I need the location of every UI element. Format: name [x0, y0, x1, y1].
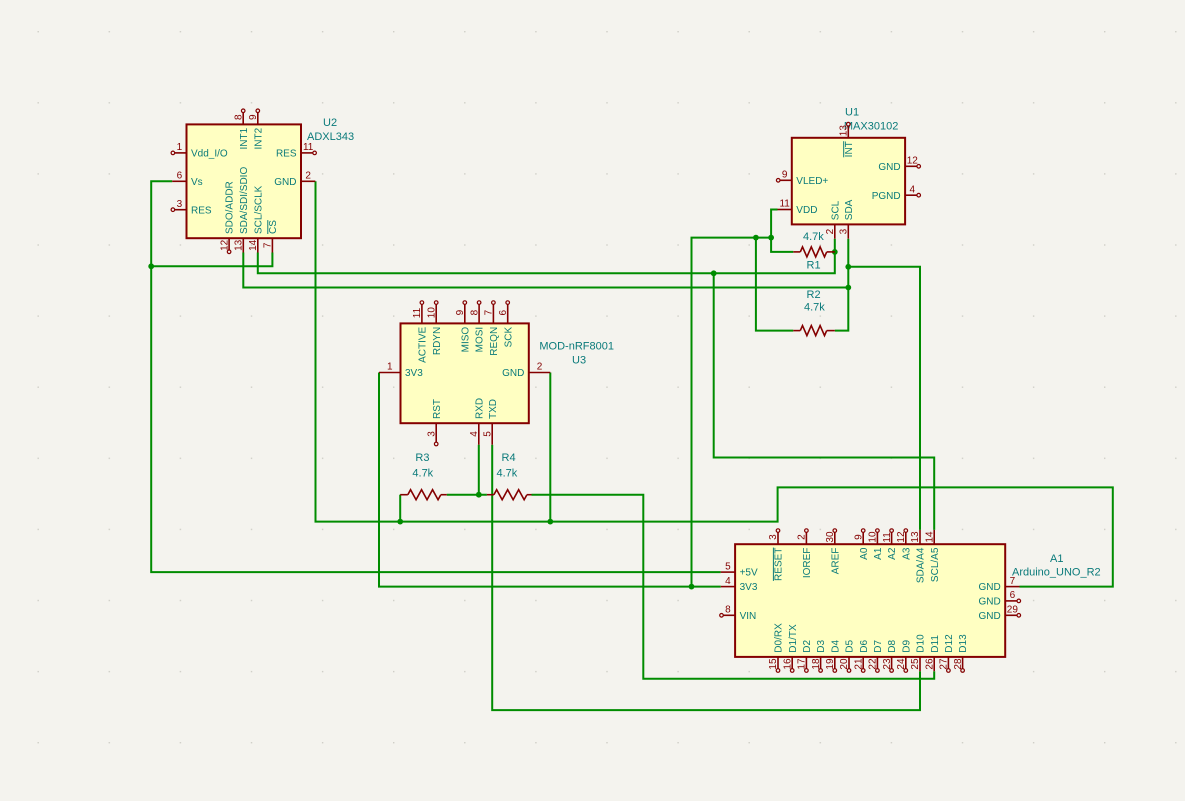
svg-text:R3: R3 [415, 452, 429, 464]
svg-text:SCK: SCK [503, 326, 514, 347]
wire R2 left feed [756, 238, 793, 331]
svg-text:VIN: VIN [740, 611, 757, 622]
U2 pin 14 SCL/SCLK [257, 238, 259, 252]
A1 pin 9 A0 [862, 532, 864, 544]
wire R1 left feed [771, 238, 793, 252]
svg-text:16: 16 [782, 658, 793, 670]
resistor R1 body [793, 251, 800, 253]
svg-text:4.7k: 4.7k [803, 231, 824, 243]
A1 pin 20 D5 [848, 657, 850, 669]
A1 pin 23 D8 [891, 657, 893, 669]
U3 pin 8 MOSI [478, 304, 480, 323]
resistor R3 body [400, 494, 408, 496]
wire 3V3: U3 pin 1 down and right to Arduino 3V3 pin 4 [379, 373, 721, 587]
svg-text:INT2: INT2 [253, 127, 264, 149]
svg-text:24: 24 [896, 658, 907, 670]
junction SDA/A4 [845, 264, 851, 270]
svg-text:SDA: SDA [844, 199, 855, 220]
U2 pin 3 RES [175, 209, 187, 211]
svg-text:D1/TX: D1/TX [788, 624, 799, 653]
svg-text:27: 27 [939, 658, 950, 670]
svg-text:D0/RX: D0/RX [774, 623, 785, 653]
svg-text:9: 9 [853, 534, 864, 540]
U3 pin 2 GND [529, 372, 551, 374]
svg-text:28: 28 [953, 658, 964, 670]
svg-text:U3: U3 [572, 355, 586, 367]
svg-text:Vdd_I/O: Vdd_I/O [191, 149, 228, 160]
junction +5V/CS [148, 263, 154, 269]
svg-text:MOD-nRF8001: MOD-nRF8001 [539, 340, 614, 352]
svg-text:4: 4 [469, 431, 480, 437]
svg-text:6: 6 [1010, 590, 1016, 601]
svg-text:MISO: MISO [460, 327, 471, 353]
svg-text:D13: D13 [958, 634, 969, 653]
svg-text:10: 10 [426, 307, 437, 319]
U1 pin 12 GND [905, 165, 917, 167]
svg-text:A2: A2 [887, 547, 898, 560]
svg-text:7: 7 [263, 242, 274, 248]
svg-text:3: 3 [839, 228, 850, 234]
svg-text:SDA/A4: SDA/A4 [916, 547, 927, 583]
svg-text:9: 9 [248, 114, 259, 120]
A1 pin 25 D10 [919, 657, 921, 671]
junction GND/R3 [397, 519, 403, 525]
svg-text:19: 19 [825, 658, 836, 670]
svg-text:13: 13 [910, 531, 921, 543]
A1 pin 7 GND [1005, 586, 1019, 588]
A1 pin 24 D9 [905, 657, 907, 669]
svg-text:8: 8 [725, 605, 731, 616]
svg-text:12: 12 [896, 531, 907, 543]
svg-text:7: 7 [1010, 576, 1016, 587]
svg-text:VLED+: VLED+ [796, 176, 828, 187]
svg-text:5: 5 [482, 431, 493, 437]
svg-text:2: 2 [537, 362, 543, 373]
U3 pin 4 RXD [478, 423, 480, 445]
svg-text:3: 3 [426, 431, 437, 437]
wire +5V net: U2 Vs pin 6 down to Arduino +5V pin 5 [151, 181, 721, 572]
svg-text:GND: GND [878, 162, 900, 173]
A1 pin 28 D13 [962, 657, 964, 669]
svg-text:ADXL343: ADXL343 [307, 131, 354, 143]
U2 pin 6 Vs [172, 180, 186, 182]
junction SDA/U2 [845, 285, 851, 291]
svg-text:GND: GND [978, 611, 1000, 622]
svg-text:D5: D5 [845, 639, 856, 652]
svg-text:GND: GND [978, 597, 1000, 608]
svg-text:D4: D4 [830, 639, 841, 652]
svg-text:3: 3 [177, 199, 183, 210]
svg-text:11: 11 [303, 142, 314, 153]
svg-text:25: 25 [910, 658, 921, 670]
svg-text:D6: D6 [859, 639, 870, 652]
U1 pin 4 PGND [905, 194, 917, 196]
A1 pin 3 RESET [777, 532, 779, 544]
svg-text:14: 14 [924, 531, 935, 543]
U2 pin 11 RES [301, 152, 313, 154]
wire SDA vertical: U1 SDA pin 3 down to R2 right [835, 239, 849, 331]
svg-text:REQN: REQN [489, 327, 500, 356]
svg-text:IOREF: IOREF [802, 548, 813, 579]
junction 3V3/R2 [753, 235, 759, 241]
wire SDA branch to Arduino SDA/A4 pin 13 [848, 267, 920, 530]
wire U3 GND pin 2 down to GND rail [549, 373, 551, 522]
A1 pin 10 A1 [876, 532, 878, 544]
svg-text:12: 12 [219, 239, 230, 251]
svg-text:9: 9 [782, 170, 788, 181]
A1 pin 2 IOREF [805, 532, 807, 544]
U3 pin 9 MISO [464, 304, 466, 323]
junction RXD/R3/R4 [476, 492, 482, 498]
svg-text:26: 26 [924, 658, 935, 670]
svg-text:2: 2 [797, 534, 808, 540]
wire CS: U2 pin 7 to +5V vertical [151, 253, 272, 267]
svg-text:SCL/A5: SCL/A5 [930, 547, 941, 582]
svg-text:4.7k: 4.7k [412, 467, 433, 479]
svg-text:SDO/ADDR: SDO/ADDR [225, 181, 236, 234]
svg-text:D2: D2 [802, 639, 813, 652]
wire R3 left down to GND rail [399, 495, 401, 522]
A1 pin 13 SDA/A4 [919, 530, 921, 544]
svg-text:MOSI: MOSI [475, 327, 486, 353]
svg-text:Vs: Vs [191, 177, 203, 188]
A1 pin 30 AREF [834, 532, 836, 544]
svg-text:Arduino_UNO_R2: Arduino_UNO_R2 [1012, 567, 1101, 579]
A1 pin 11 A2 [891, 532, 893, 544]
svg-text:SDA/SDI/SDIO: SDA/SDI/SDIO [239, 167, 250, 234]
svg-text:7: 7 [484, 309, 495, 315]
resistor R4 body [487, 494, 494, 496]
A1 pin 17 D2 [805, 657, 807, 669]
U1 pin 9 VLED+ [780, 179, 792, 181]
svg-text:2: 2 [305, 171, 311, 182]
svg-text:3: 3 [768, 534, 779, 540]
svg-text:+5V: +5V [740, 568, 758, 579]
svg-text:RXD: RXD [474, 398, 485, 419]
svg-text:17: 17 [797, 658, 808, 670]
A1 pin 22 D7 [876, 657, 878, 669]
svg-text:22: 22 [868, 658, 879, 670]
svg-text:12: 12 [907, 156, 919, 167]
svg-text:13: 13 [234, 239, 245, 251]
IC U3 MOD-nRF8001 body [401, 323, 529, 423]
svg-text:4.7k: 4.7k [804, 302, 825, 314]
wire R3 right to R4 left [447, 494, 487, 496]
wire R4 right to Arduino D11 pin 26 [532, 495, 935, 679]
wire SCL: U2 SCL/SCLK pin 14 right to R1/U1 SCL pin 2 [258, 239, 835, 274]
U2 pin 12 SDO/ADDR [228, 238, 230, 250]
svg-text:3V3: 3V3 [405, 368, 423, 379]
svg-text:D11: D11 [930, 635, 941, 653]
U2 pin 8 INT1 [242, 113, 244, 125]
A1 pin 15 D0/RX [777, 657, 779, 669]
U2 pin 7 CS (active low) [271, 238, 273, 252]
svg-text:15: 15 [768, 658, 779, 670]
svg-text:D9: D9 [901, 639, 912, 652]
svg-text:13: 13 [839, 125, 850, 137]
svg-text:1: 1 [177, 142, 183, 153]
wire 3V3 rail: left and down to Arduino 3V3 pin 4 [692, 238, 772, 587]
svg-text:21: 21 [853, 658, 864, 670]
IC U1 MAX30102 body [792, 138, 905, 225]
svg-text:R1: R1 [807, 259, 821, 271]
svg-text:RES: RES [276, 149, 297, 160]
A1 pin 8 VIN [723, 614, 735, 616]
op-amp-style IC U2 ADXL343 body [187, 124, 302, 238]
svg-text:PGND: PGND [872, 191, 901, 202]
U2 pin 1 Vdd_I/O [175, 152, 187, 154]
svg-text:A1: A1 [1050, 553, 1063, 565]
svg-text:U1: U1 [845, 107, 859, 119]
A1 pin 6 GND [1005, 600, 1017, 602]
junction 3V3 [689, 584, 695, 590]
svg-text:INT: INT [844, 141, 855, 157]
svg-text:11: 11 [412, 307, 423, 318]
svg-text:10: 10 [868, 531, 879, 543]
svg-text:SCL/SCLK: SCL/SCLK [253, 185, 264, 234]
svg-text:VDD: VDD [796, 205, 817, 216]
junction SCL/R1 [832, 249, 838, 255]
svg-text:A3: A3 [901, 547, 912, 560]
svg-text:11: 11 [882, 532, 893, 543]
svg-text:CS: CS [268, 220, 279, 234]
U3 pin 7 REQN [492, 304, 494, 323]
U3 pin 10 RDYN [435, 304, 437, 323]
IC A1 Arduino_UNO_R2 body [735, 544, 1005, 657]
A1 pin 14 SCL/A5 [933, 530, 935, 544]
A1 pin 26 D11 [933, 657, 935, 671]
svg-text:29: 29 [1007, 605, 1019, 616]
U1 pin 11 VDD [778, 209, 792, 211]
svg-text:14: 14 [248, 239, 259, 251]
svg-text:20: 20 [839, 658, 850, 670]
U3 pin 5 TXD [491, 423, 493, 445]
svg-text:R2: R2 [807, 289, 821, 301]
A1 pin 12 A3 [905, 532, 907, 544]
svg-text:1: 1 [387, 362, 393, 373]
svg-text:GND: GND [502, 368, 524, 379]
svg-text:8: 8 [233, 114, 244, 120]
svg-text:6: 6 [498, 309, 509, 315]
svg-text:30: 30 [825, 531, 836, 543]
svg-text:D3: D3 [816, 639, 827, 652]
junction GND/U3 [547, 519, 553, 525]
svg-text:3V3: 3V3 [740, 582, 758, 593]
svg-text:9: 9 [455, 309, 466, 315]
resistor R2 body [793, 330, 800, 332]
svg-text:RDYN: RDYN [432, 327, 443, 355]
U1 pin 2 SCL [834, 224, 836, 238]
wire GND net: U2 GND pin 2 down, rail, up and over to Arduino GND pin 7 [316, 181, 1113, 586]
svg-text:MAX30102: MAX30102 [844, 121, 898, 133]
svg-text:4.7k: 4.7k [497, 467, 518, 479]
svg-text:RES: RES [191, 205, 212, 216]
svg-text:11: 11 [779, 199, 790, 210]
wire VDD: U1 VDD pin 11 to 3V3 rail [771, 210, 777, 238]
svg-text:R4: R4 [502, 452, 516, 464]
svg-text:AREF: AREF [830, 548, 841, 575]
svg-text:6: 6 [177, 171, 183, 182]
A1 pin 5 +5V [721, 571, 735, 573]
svg-text:ACTIVE: ACTIVE [418, 326, 429, 362]
A1 pin 4 3V3 [721, 586, 735, 588]
U3 pin 6 SCK [507, 304, 509, 323]
svg-text:RESET: RESET [774, 548, 785, 581]
svg-text:D7: D7 [873, 639, 884, 652]
U2 pin 13 SDA/SDI/SDIO [242, 238, 244, 252]
U3 pin 11 ACTIVE [421, 304, 423, 323]
A1 pin 21 D6 [862, 657, 864, 669]
svg-text:A0: A0 [859, 547, 870, 560]
svg-text:D8: D8 [887, 639, 898, 652]
svg-text:TXD: TXD [488, 399, 499, 419]
A1 pin 16 D1/TX [791, 657, 793, 669]
svg-text:2: 2 [825, 228, 836, 234]
svg-text:18: 18 [811, 658, 822, 670]
junction SCL/A5 [711, 270, 717, 276]
svg-text:INT1: INT1 [239, 127, 250, 149]
U1 pin 3 SDA [847, 224, 849, 238]
svg-text:RST: RST [432, 399, 443, 419]
svg-text:D12: D12 [944, 634, 955, 653]
wire RXD: U3 pin 4 down to R3/R4 node [478, 445, 480, 495]
U2 pin 2 GND [301, 180, 315, 182]
A1 pin 27 D12 [947, 657, 949, 669]
svg-text:4: 4 [725, 576, 731, 587]
junction 3V3/R1/VDD [768, 235, 774, 241]
svg-text:SCL: SCL [830, 200, 841, 220]
A1 pin 29 GND [1005, 614, 1017, 616]
U3 pin 1 3V3 [379, 372, 401, 374]
wire TXD: U3 pin 5 down to Arduino D10 pin 25 [492, 445, 920, 710]
svg-text:23: 23 [882, 658, 893, 670]
svg-text:GND: GND [274, 177, 296, 188]
A1 pin 18 D3 [820, 657, 822, 669]
U2 pin 9 INT2 [257, 113, 259, 125]
svg-text:5: 5 [725, 561, 731, 572]
U1 pin 13 INT (active low) [847, 126, 849, 138]
wire SCL branch down to Arduino SCL/A5 pin 14 [714, 273, 935, 530]
svg-text:D10: D10 [916, 634, 927, 653]
svg-text:U2: U2 [323, 117, 337, 129]
wire SDA: U2 SDA/SDI/SDIO pin 13 right to SDA vertical [243, 253, 848, 288]
svg-text:A1: A1 [873, 547, 884, 560]
U3 pin 3 RST [435, 423, 437, 442]
A1 pin 19 D4 [834, 657, 836, 669]
svg-text:4: 4 [909, 184, 915, 195]
svg-text:8: 8 [469, 309, 480, 315]
svg-text:GND: GND [978, 582, 1000, 593]
